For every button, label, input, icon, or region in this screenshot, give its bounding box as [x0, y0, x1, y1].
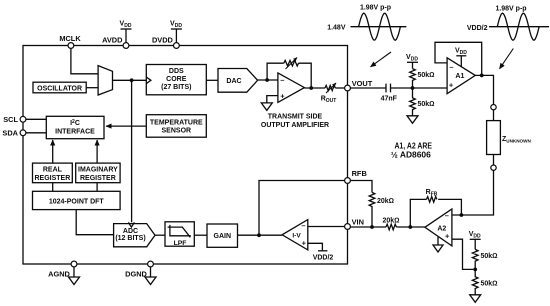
- svg-text:–: –: [445, 211, 449, 220]
- wire LPF to GAIN: [194, 234, 207, 236]
- wire real register to DFT: [52, 183, 54, 192]
- sine wave 2 axis: [489, 26, 549, 28]
- svg-text:1.98V p-p: 1.98V p-p: [360, 4, 391, 11]
- sine wave 2: [497, 13, 539, 40]
- svg-text:–: –: [449, 62, 453, 71]
- wire Z box to terminal: [493, 155, 495, 166]
- svg-text:OSCILLATOR: OSCILLATOR: [37, 86, 82, 93]
- node divider junction A1: [411, 86, 415, 90]
- svg-text:20kΩ: 20kΩ: [377, 198, 394, 205]
- power VDD at A2 divider: [474, 239, 476, 249]
- svg-text:DVDD: DVDD: [152, 36, 174, 45]
- op-amp transmit amplifier: [278, 73, 305, 103]
- node VIN junction: [370, 225, 374, 229]
- resistor 50k upper A2: [472, 249, 478, 269]
- svg-text:I-V: I-V: [292, 233, 301, 240]
- svg-text:+: +: [280, 92, 285, 101]
- wire amp + input to ground: [267, 96, 278, 103]
- svg-text:VDD: VDD: [170, 21, 182, 30]
- resistor 20k horizontal: [386, 224, 396, 230]
- resistor 20k vertical: [369, 192, 375, 227]
- svg-text:LPF: LPF: [174, 240, 187, 247]
- sine wave 1 axis: [351, 26, 407, 28]
- wire I-V plus input to VDD/2: [308, 243, 323, 251]
- pin DGND: [148, 261, 154, 267]
- svg-text:OUTPUT AMPLIFIER: OUTPUT AMPLIFIER: [261, 122, 329, 129]
- svg-text:+: +: [445, 232, 450, 241]
- wire capacitor to A1 plus input: [391, 87, 448, 89]
- DDS core box: [146, 65, 206, 95]
- svg-text:VDD: VDD: [406, 54, 418, 63]
- AD5933 chip outline: [23, 46, 348, 265]
- GAIN box: [207, 224, 238, 247]
- svg-text:50kΩ: 50kΩ: [418, 101, 435, 108]
- svg-text:DDS: DDS: [169, 68, 184, 75]
- svg-text:50kΩ: 50kΩ: [481, 253, 498, 260]
- wire A1 feedback loop: [435, 42, 482, 75]
- op-amp A2: [425, 209, 452, 246]
- resistor RFB: [427, 197, 437, 203]
- op-amp I-V: [282, 220, 308, 250]
- I2C interface box: [46, 116, 104, 138]
- node A2 divider junction: [473, 268, 477, 272]
- svg-text:REGISTER: REGISTER: [35, 175, 71, 182]
- svg-text:GAIN: GAIN: [214, 233, 232, 240]
- wire VOUT to capacitor: [350, 87, 386, 89]
- resistor 50k lower A2: [472, 269, 478, 294]
- wire mux to DDS core: [113, 79, 147, 81]
- wire feedback loop of transmit amplifier: [267, 63, 284, 80]
- wire temperature sensor to I2C arrow: [106, 125, 146, 127]
- svg-text:REAL: REAL: [43, 167, 63, 174]
- ground at A2 divider: [470, 295, 481, 303]
- ground at transmit amplifier: [261, 103, 272, 111]
- oscillator box: [33, 82, 86, 93]
- svg-text:VOUT: VOUT: [352, 79, 373, 88]
- power VDD at AVDD: [125, 29, 127, 43]
- pin AGND: [71, 261, 77, 267]
- svg-text:+: +: [302, 239, 307, 248]
- wire VIN to I-V minus input: [308, 226, 345, 228]
- wire MCLK to mux: [71, 48, 98, 74]
- svg-text:1.48V: 1.48V: [327, 24, 346, 31]
- svg-text:VIN: VIN: [352, 218, 364, 227]
- register REAL box: [33, 163, 73, 183]
- node RFB junction: [257, 233, 261, 237]
- svg-text:I2C: I2C: [70, 119, 80, 127]
- svg-text:(27 BITS): (27 BITS): [161, 84, 191, 91]
- svg-text:DAC: DAC: [226, 78, 241, 85]
- pin VIN: [345, 224, 351, 230]
- pin VOUT: [345, 85, 351, 91]
- wire DDS to DAC: [206, 79, 218, 81]
- wire RFB pin to 20k: [350, 181, 372, 193]
- svg-text:½ AD8606: ½ AD8606: [391, 149, 431, 159]
- svg-text:DGND: DGND: [125, 270, 147, 279]
- svg-text:INTERFACE: INTERFACE: [55, 129, 95, 136]
- wire ADC to LPF: [155, 234, 165, 236]
- power VDD at A1: [460, 56, 462, 67]
- wire Z to A2 minus input: [452, 170, 494, 215]
- power VDD at A1 divider: [412, 62, 414, 68]
- resistor 50k upper A1: [410, 69, 416, 88]
- capacitor 47nF: [385, 84, 387, 93]
- svg-text:CORE: CORE: [166, 76, 187, 83]
- svg-text:SCL: SCL: [3, 115, 18, 124]
- power VDD at DVDD: [175, 29, 177, 43]
- ground at A2: [437, 237, 439, 245]
- svg-text:–: –: [280, 75, 284, 84]
- wire clock line to ADC: [131, 80, 133, 222]
- wire DFT to ADC: [76, 210, 113, 235]
- node A1 output junction: [480, 74, 484, 78]
- mux: [98, 66, 112, 95]
- svg-text:AGND: AGND: [48, 270, 70, 279]
- node A2 output junction: [408, 225, 412, 229]
- svg-text:AVDD: AVDD: [102, 36, 123, 45]
- pin RFB: [345, 178, 351, 184]
- wire imaginary register to DFT: [96, 183, 98, 192]
- LPF box: [165, 222, 194, 246]
- terminal lower Z: [491, 165, 496, 170]
- wire A2 plus input to divider: [452, 239, 473, 269]
- resistor ROUT: [325, 85, 335, 90]
- svg-text:50kΩ: 50kΩ: [418, 72, 435, 79]
- svg-text:VDD: VDD: [455, 47, 467, 56]
- svg-text:ADC: ADC: [123, 228, 138, 235]
- wire imaginary register to I2C arrow: [96, 140, 98, 163]
- svg-text:VDD: VDD: [120, 21, 132, 30]
- wire ROUT to VOUT pin: [335, 87, 344, 89]
- register IMAGINARY box: [76, 163, 120, 183]
- svg-text:1024-POINT DFT: 1024-POINT DFT: [49, 198, 105, 205]
- arrow annotation 2: [500, 49, 514, 69]
- ground at AGND: [73, 267, 75, 277]
- svg-text:A1: A1: [455, 73, 464, 80]
- svg-text:+: +: [449, 80, 454, 89]
- wire real register to I2C arrow: [52, 140, 54, 163]
- svg-text:1.98V p-p: 1.98V p-p: [495, 5, 526, 12]
- pin DVDD: [174, 43, 180, 49]
- resistor variable feedback: [284, 60, 299, 66]
- svg-text:TEMPERATURE: TEMPERATURE: [150, 119, 203, 126]
- wire SDA to I2C: [26, 132, 46, 134]
- wire oscillator to mux: [86, 87, 98, 89]
- svg-text:ZUNKNOWN: ZUNKNOWN: [502, 136, 531, 143]
- ADC block: [114, 224, 155, 247]
- wire RFB pin internal: [259, 181, 345, 236]
- node mux output junction: [130, 78, 134, 82]
- wire RFB resistor loop: [410, 199, 426, 227]
- sine wave 1: [359, 13, 401, 40]
- wire DAC to amplifier: [258, 79, 278, 81]
- svg-text:IMAGINARY: IMAGINARY: [78, 167, 118, 174]
- terminal upper Z: [491, 105, 496, 110]
- wire terminal to Z box: [493, 110, 495, 121]
- wire SCL to I2C: [26, 118, 46, 120]
- svg-text:47nF: 47nF: [381, 95, 398, 102]
- svg-text:SENSOR: SENSOR: [162, 128, 192, 135]
- svg-text:VDD/2: VDD/2: [313, 254, 334, 261]
- DAC: [218, 69, 258, 93]
- svg-text:VDD: VDD: [469, 231, 481, 240]
- svg-text:–: –: [301, 221, 305, 230]
- svg-text:VDD/2: VDD/2: [467, 25, 488, 32]
- wire amp output: [304, 87, 325, 89]
- impedance Z unknown box: [487, 121, 501, 155]
- wire 20k to A2 output: [396, 226, 425, 228]
- svg-text:TRANSMIT SIDE: TRANSMIT SIDE: [268, 113, 323, 120]
- pin SCL: [20, 116, 26, 122]
- svg-text:20kΩ: 20kΩ: [382, 217, 399, 224]
- pin MCLK: [68, 43, 74, 49]
- pin AVDD: [123, 43, 129, 49]
- resistor 50k lower A1: [410, 88, 416, 116]
- svg-text:ROUT: ROUT: [321, 96, 337, 105]
- svg-text:REGISTER: REGISTER: [80, 175, 116, 182]
- wire GAIN to I-V amp: [238, 234, 283, 236]
- node feedback to output junction: [309, 86, 313, 90]
- DFT box: [33, 191, 121, 209]
- power VDD/2 at I-V: [318, 250, 327, 252]
- svg-text:SDA: SDA: [2, 129, 18, 138]
- ground at DGND: [150, 267, 152, 277]
- temperature sensor box: [146, 115, 206, 138]
- ground at A1 divider: [407, 116, 418, 124]
- svg-text:(12 BITS): (12 BITS): [115, 235, 145, 242]
- node DAC output junction: [265, 78, 269, 82]
- pin SDA: [20, 130, 26, 136]
- wire A1 output: [475, 75, 493, 104]
- arrow annotation 1: [371, 52, 392, 67]
- svg-text:MCLK: MCLK: [59, 34, 81, 43]
- ADC clock arrowhead: [128, 222, 134, 227]
- svg-text:RFB: RFB: [352, 169, 367, 178]
- svg-text:A2: A2: [437, 226, 446, 233]
- svg-text:50kΩ: 50kΩ: [481, 280, 498, 287]
- node RFB right junction: [460, 213, 464, 217]
- wire VIN to 20k horizontal: [350, 226, 386, 228]
